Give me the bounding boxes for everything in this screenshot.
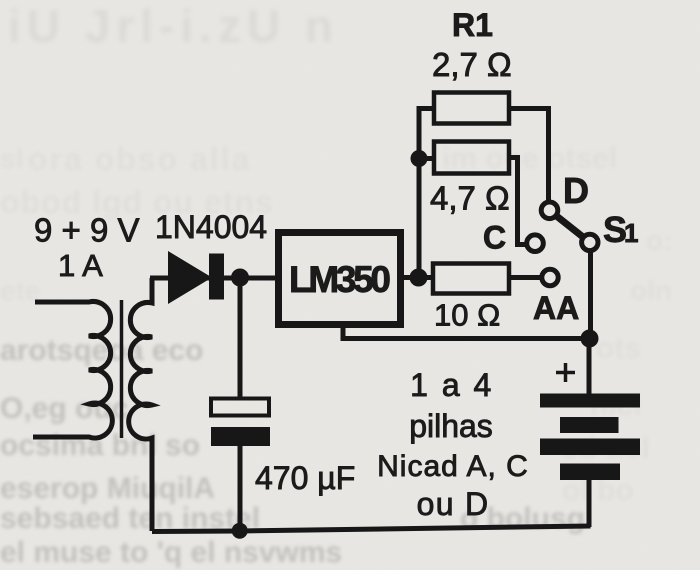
svg-text:sl: sl [0,143,23,174]
svg-text:ocsima bnl so: ocsima bnl so [0,429,200,462]
svg-text:LM350: LM350 [289,259,391,300]
svg-text:D: D [563,170,589,211]
svg-text:ete: ete [0,275,40,306]
svg-text:Nicad A, C: Nicad A, C [377,450,529,483]
svg-text:9 + 9 V: 9 + 9 V [34,212,140,249]
svg-text:C: C [483,220,506,256]
svg-text:R1: R1 [452,7,493,43]
svg-text:iU Jrl-i.zU n: iU Jrl-i.zU n [8,0,339,52]
svg-text:oln: oln [630,275,672,306]
svg-text:1: 1 [624,218,638,248]
svg-text:2,7 Ω: 2,7 Ω [432,46,512,83]
svg-text:1 a 4: 1 a 4 [410,367,494,403]
svg-text:el muse to 'q el nsvwms: el muse to 'q el nsvwms [0,536,342,569]
svg-text:AA: AA [533,290,579,326]
svg-text:ou D: ou D [417,486,490,522]
svg-text:pilhas: pilhas [409,408,493,444]
svg-text:ora obso alla: ora obso alla [28,141,251,177]
svg-text:ots: ots [596,332,641,365]
svg-text:1N4004: 1N4004 [155,209,267,245]
svg-text:10 Ω: 10 Ω [434,298,500,333]
svg-text:470 µF: 470 µF [255,460,355,496]
svg-text:4,7 Ω: 4,7 Ω [430,180,510,217]
svg-text:1 A: 1 A [58,248,103,283]
svg-text:o:: o: [646,225,672,256]
svg-text:im one otsel: im one otsel [442,142,617,175]
svg-text:eserop MiuqilA: eserop MiuqilA [0,472,215,505]
